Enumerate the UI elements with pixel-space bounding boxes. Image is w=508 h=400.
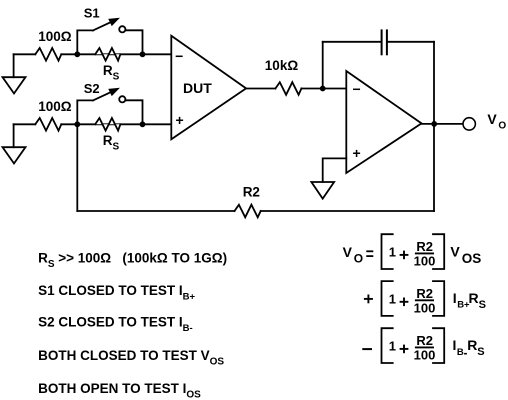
svg-text:V: V <box>450 243 460 259</box>
svg-text:R2: R2 <box>416 286 433 301</box>
wire U2 plus input <box>323 158 347 182</box>
svg-text:S: S <box>477 346 484 358</box>
terminal VO <box>463 118 475 130</box>
svg-text:100: 100 <box>414 348 436 363</box>
wire feedback top to capacitor <box>323 41 382 43</box>
ground (U2 plus) <box>311 182 334 199</box>
wire R2 bottom right <box>261 210 434 212</box>
wire R2 bottom left <box>77 210 234 212</box>
op-amp U2 <box>346 71 421 173</box>
svg-text:1: 1 <box>389 339 396 354</box>
svg-text:+: + <box>176 112 184 128</box>
svg-text:R2: R2 <box>416 239 433 254</box>
svg-text:S1: S1 <box>84 6 100 21</box>
equation term 1 <box>343 234 482 269</box>
svg-text:R: R <box>469 290 479 306</box>
svg-text:−: − <box>175 48 183 64</box>
svg-text:B: B <box>457 347 464 358</box>
wire lower branch left lead <box>14 123 36 125</box>
wire 10k to U2 minus <box>301 88 346 90</box>
node junction left of RS bottom <box>74 121 80 127</box>
node summing junction <box>320 86 326 92</box>
equation term 2 <box>364 281 486 316</box>
svg-text:V: V <box>487 111 497 127</box>
node junction right of RS bottom <box>140 121 146 127</box>
op-amp DUT <box>171 36 246 140</box>
svg-text:S: S <box>479 299 486 311</box>
resistor RS (bottom) <box>95 118 120 131</box>
svg-text:R2: R2 <box>416 333 433 348</box>
svg-text:100: 100 <box>414 254 436 269</box>
wire U2 output to terminal <box>422 123 463 125</box>
svg-text:I: I <box>453 337 457 353</box>
ground (top left) <box>3 54 26 93</box>
svg-text:−: − <box>353 81 361 97</box>
svg-text:100Ω: 100Ω <box>38 29 72 44</box>
node output junction <box>431 121 437 127</box>
resistor R2 <box>235 205 261 218</box>
svg-text:I: I <box>453 290 457 306</box>
switch S1 <box>77 19 142 54</box>
ground (lower left) <box>3 124 26 163</box>
svg-text:100: 100 <box>414 301 436 316</box>
wire R2 left vertical <box>76 124 78 211</box>
node junction right of RS top <box>140 51 146 57</box>
wire feedback left vertical <box>322 42 324 89</box>
capacitor C1 <box>382 30 387 54</box>
svg-text:R: R <box>467 337 477 353</box>
wire lower branch to DUT plus <box>61 123 171 125</box>
wire right vertical (feedback/output/R2) <box>433 42 435 211</box>
wire capacitor to right vertical <box>387 41 434 43</box>
svg-text:1: 1 <box>389 292 396 307</box>
svg-text:100Ω: 100Ω <box>38 99 72 114</box>
svg-text:O: O <box>354 251 363 265</box>
svg-text:OS: OS <box>462 251 482 266</box>
switch S2 <box>77 89 142 124</box>
svg-text:1: 1 <box>389 245 396 260</box>
wire top branch left lead <box>14 53 36 55</box>
svg-text:V: V <box>343 244 353 260</box>
wire top branch to DUT minus <box>61 53 171 55</box>
svg-text:S2: S2 <box>84 81 100 96</box>
resistor 10kΩ <box>275 82 301 95</box>
svg-text:+: + <box>353 145 361 161</box>
svg-text:10kΩ: 10kΩ <box>265 58 299 73</box>
svg-text:R2: R2 <box>243 185 260 200</box>
resistor 100Ω (top) <box>35 48 61 61</box>
node junction left of RS top <box>74 51 80 57</box>
wire DUT output to 10k <box>246 88 275 90</box>
svg-text:O: O <box>498 120 506 131</box>
resistor RS (top) <box>95 48 120 61</box>
resistor 100Ω (bottom) <box>35 118 61 131</box>
svg-text:DUT: DUT <box>183 80 212 96</box>
equation term 3 <box>362 328 484 363</box>
